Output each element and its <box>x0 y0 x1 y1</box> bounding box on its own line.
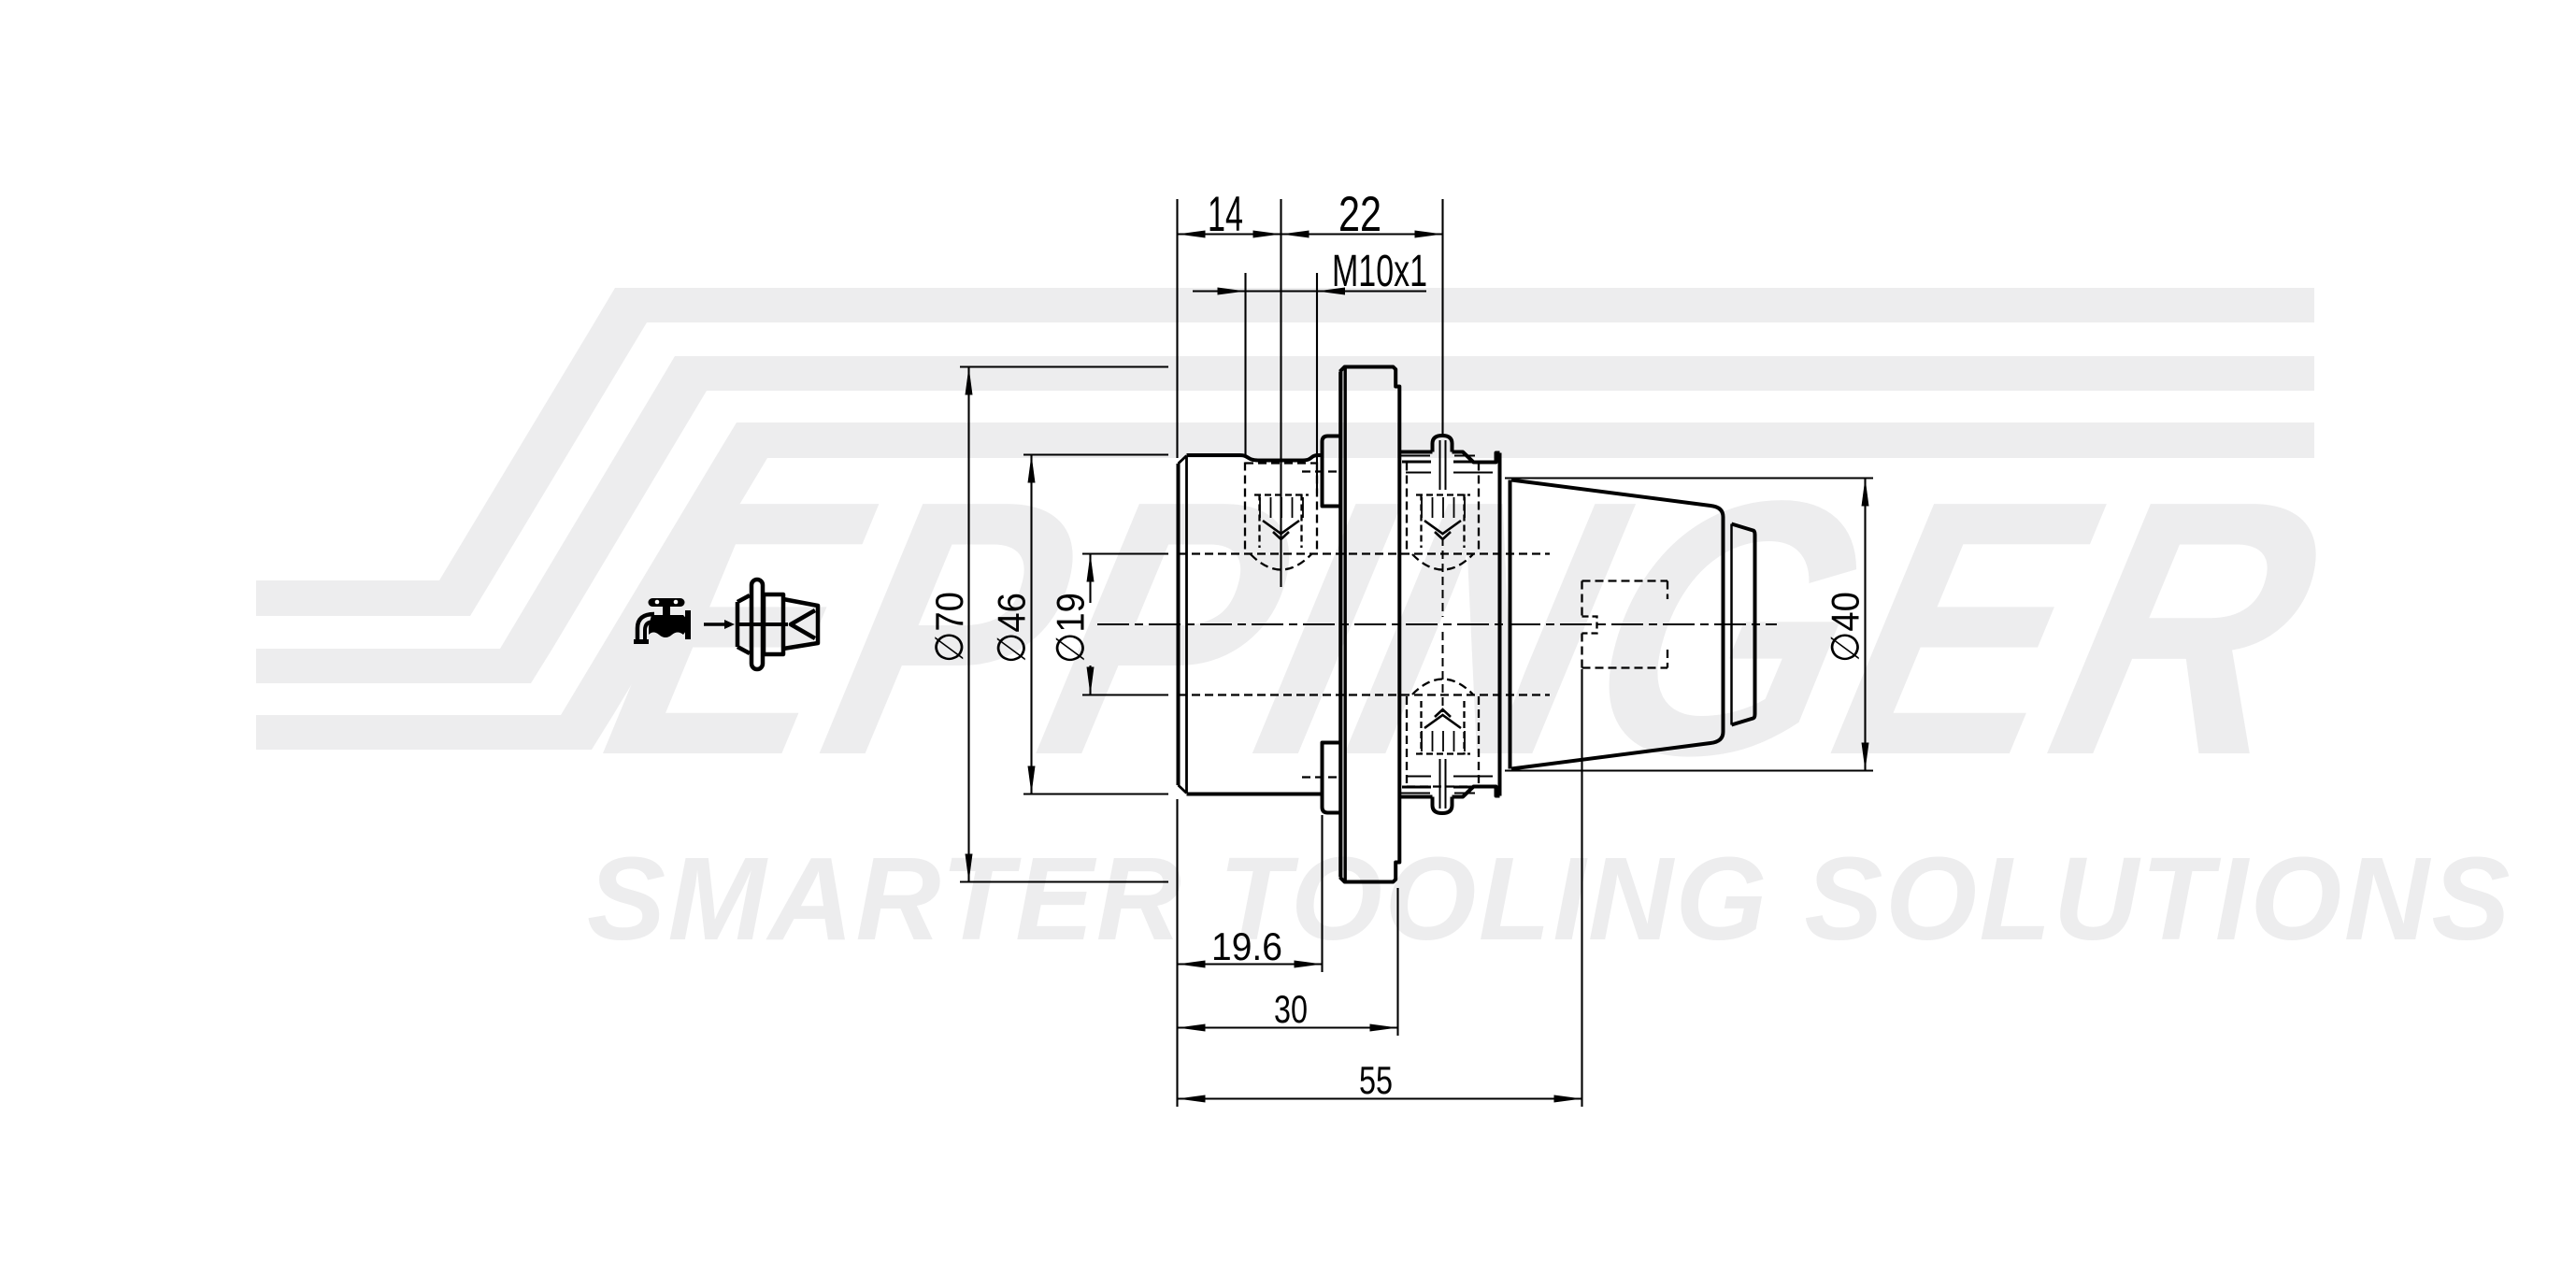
clamp hole notch <box>1582 617 1597 634</box>
right bottom hole arc <box>1412 680 1473 695</box>
body right face <box>1498 453 1502 796</box>
arrows dia70 <box>966 367 973 395</box>
dia40 dim line <box>1864 479 1866 771</box>
ext line hole2 center <box>1441 199 1443 437</box>
bore line bottom <box>1179 694 1550 695</box>
dia46 ext lines <box>1023 455 1168 794</box>
end ring left edge <box>1730 524 1733 725</box>
pin slot top <box>1440 440 1446 490</box>
wm diagonal 2 <box>500 391 707 649</box>
right bottom hole outline <box>1407 696 1479 787</box>
svg-text:30: 30 <box>1274 987 1308 1031</box>
M10 ext lines <box>1246 273 1318 494</box>
faucet spout <box>637 614 654 639</box>
svg-text:∅70: ∅70 <box>927 592 971 663</box>
bottom ext lines <box>1178 669 1582 1107</box>
ext line left face top <box>1176 199 1178 458</box>
body top edge right with groove <box>1453 452 1500 463</box>
svg-text:M10x1: M10x1 <box>1332 247 1427 296</box>
hub top edge with saddle dip <box>1187 455 1323 461</box>
wm diagonal 3 <box>561 458 767 715</box>
main axis <box>1097 623 1777 625</box>
pin slot bottom <box>1440 759 1446 809</box>
wm bar 1 <box>256 580 492 616</box>
right bottom minor <box>1416 701 1470 755</box>
dia40 ext lines <box>1505 479 1873 771</box>
dia46 dim line <box>1030 455 1032 794</box>
arrows M10 <box>1218 288 1246 295</box>
svg-text:22: 22 <box>1338 187 1381 242</box>
right bottom comb <box>1422 731 1465 751</box>
right hole bottom arc <box>1412 554 1473 570</box>
icon centerline <box>737 623 788 626</box>
coolant pin bottom <box>1433 797 1453 814</box>
faucet body <box>649 615 688 637</box>
svg-text:∅40: ∅40 <box>1824 592 1868 663</box>
top drive lug <box>1323 436 1339 507</box>
faucet outlet <box>634 639 649 644</box>
dim line 30 <box>1178 1026 1398 1028</box>
ext line hole1 center <box>1280 199 1281 587</box>
svg-text:SMARTER TOOLING SOLUTIONS: SMARTER TOOLING SOLUTIONS <box>587 833 2512 965</box>
icon body <box>764 594 783 654</box>
icon collet vee <box>791 610 815 638</box>
wm diagonal 1 <box>439 322 647 580</box>
flange outline <box>1340 367 1400 882</box>
svg-text:14: 14 <box>1208 187 1243 242</box>
wm stripe 2 <box>654 356 2314 391</box>
right hole centerline bottom <box>1442 632 1444 712</box>
arrows 55 <box>1178 1095 1206 1103</box>
left face of hub <box>1177 464 1181 785</box>
arrows dia19 <box>1087 554 1095 582</box>
dia19 ext lines <box>1082 554 1168 695</box>
dim line 14/22 <box>1178 233 1443 235</box>
arrows 19.6 <box>1178 961 1206 968</box>
faucet handle <box>652 598 680 607</box>
flange left face second edge <box>1343 367 1346 882</box>
arrows dia40 <box>1862 479 1869 507</box>
icon arrow <box>704 623 726 626</box>
body top edge <box>1399 451 1432 454</box>
flange left face <box>1338 372 1342 878</box>
cone taper outline <box>1511 480 1724 769</box>
icon cone <box>783 599 818 649</box>
clamp hole rect <box>1582 581 1668 668</box>
left thread minor <box>1254 494 1309 549</box>
svg-text:∅19: ∅19 <box>1049 593 1093 664</box>
screw lines top <box>1399 455 1475 457</box>
right bottom drill chevron <box>1424 709 1461 728</box>
hidden line at lug top <box>1302 470 1339 472</box>
dia70 ext lines <box>960 367 1168 882</box>
left drill chevron <box>1263 521 1299 539</box>
arrows 30 <box>1178 1024 1206 1032</box>
dia19 dim line <box>1089 554 1091 695</box>
left thread hole outline <box>1245 463 1317 553</box>
body bottom edge right with groove <box>1453 787 1500 797</box>
arrows dia46 <box>1028 455 1036 483</box>
wm bar 2 <box>256 649 552 683</box>
dim line 55 <box>1178 1097 1582 1099</box>
coolant pin top <box>1433 436 1453 452</box>
bore line top <box>1179 552 1550 554</box>
wm stripe 3 <box>715 422 2314 458</box>
right thread hole outline <box>1407 463 1479 553</box>
chamfer edge line <box>1185 456 1188 794</box>
chamfer corners <box>1179 456 1187 794</box>
cone base face <box>1509 480 1512 769</box>
right comb <box>1422 497 1465 518</box>
left hole bottom arc <box>1251 554 1311 570</box>
dim line 19.6 <box>1178 963 1323 965</box>
wm bar 3 <box>256 715 613 750</box>
screw lines bottom <box>1399 793 1475 794</box>
arrows 14/22 <box>1178 231 1206 238</box>
icon flange disc <box>751 580 763 669</box>
icon taper left <box>737 595 750 653</box>
wm stripe 1 <box>594 288 2314 322</box>
right drill chevron <box>1424 521 1461 539</box>
body bottom edge <box>1399 795 1432 799</box>
svg-text:19.6: 19.6 <box>1211 924 1282 968</box>
svg-text:EPPINGER: EPPINGER <box>579 425 2355 830</box>
M10 dim line <box>1193 290 1426 292</box>
hidden line at lug bottom <box>1302 776 1339 778</box>
end ring outline <box>1732 524 1755 725</box>
faucet flange <box>685 610 691 639</box>
svg-text:55: 55 <box>1359 1058 1393 1102</box>
dia70 dim line <box>967 367 969 882</box>
svg-text:∅46: ∅46 <box>990 593 1034 664</box>
right hole centerline top <box>1442 537 1444 617</box>
hub bottom edge <box>1187 793 1323 796</box>
bottom drive lug <box>1323 743 1339 813</box>
left comb <box>1260 497 1303 518</box>
right thread minor <box>1416 494 1470 549</box>
